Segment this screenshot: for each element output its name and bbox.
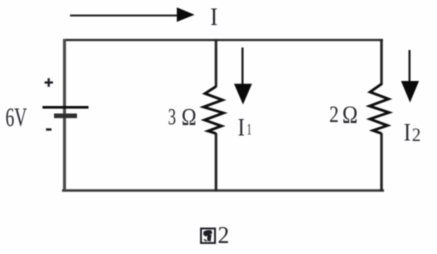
svg-text:2: 2 xyxy=(218,222,230,249)
svg-text:1: 1 xyxy=(247,122,252,139)
svg-text:2: 2 xyxy=(412,125,421,146)
svg-text:Ω: Ω xyxy=(342,102,358,129)
svg-text:3: 3 xyxy=(168,105,176,131)
svg-text:6V: 6V xyxy=(6,103,28,132)
svg-text:2: 2 xyxy=(329,102,339,127)
svg-text:I: I xyxy=(238,115,245,142)
svg-text:I: I xyxy=(404,120,411,147)
svg-text:I: I xyxy=(210,4,218,31)
svg-text:Ω: Ω xyxy=(181,104,197,131)
